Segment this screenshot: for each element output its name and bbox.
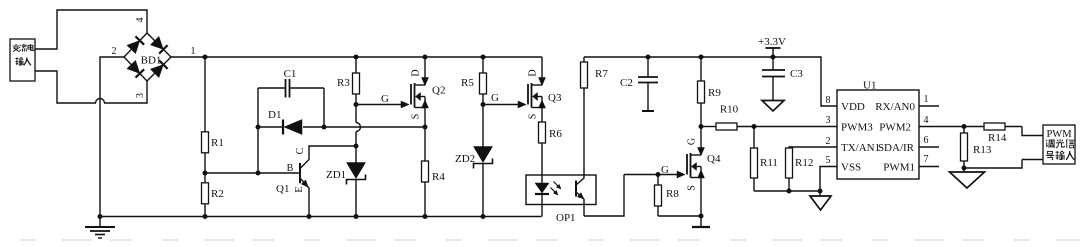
ground symbol (triangle) below R13 [963, 168, 965, 172]
optocoupler OP1 light arrows [554, 182, 561, 189]
svg-text:RX/AN0: RX/AN0 [875, 101, 915, 113]
bridge diode (pin3 to pin1) [150, 65, 163, 78]
AC input box (交流电输入) [10, 39, 35, 81]
node dot Q1 collector / ZD1 top [354, 144, 359, 149]
svg-text:ZD1: ZD1 [326, 169, 346, 181]
transistor Q1 emitter lead with arrow [300, 178, 309, 217]
svg-text:G: G [687, 138, 698, 145]
U1 pin 6 stub [919, 146, 939, 148]
svg-text:8: 8 [826, 95, 831, 106]
resistor R13 [963, 127, 965, 134]
svg-text:C1: C1 [284, 68, 297, 80]
svg-text:Q4: Q4 [707, 153, 721, 165]
svg-text:2: 2 [826, 136, 831, 147]
svg-text:S: S [687, 185, 698, 191]
diode D1 (cathode left) [282, 120, 284, 135]
svg-text:R2: R2 [211, 188, 224, 200]
wire low-voltage rail (R7 to U1 pin 8) [584, 57, 837, 106]
node dot pin5 ground node [818, 189, 823, 194]
bridge diode (pin2 to pin4) [127, 41, 140, 54]
AC input box text 交流电 [13, 44, 20, 52]
svg-text:D: D [411, 69, 422, 76]
node dot rail at R3 [354, 55, 359, 60]
node dot Q4 source / R8 / ground [699, 214, 704, 219]
wire C1 right lead down to node B [323, 88, 325, 127]
svg-text:R11: R11 [760, 157, 778, 169]
U1 pin 1 stub [919, 105, 939, 107]
resistor R7 [583, 57, 585, 62]
node dot Q1 emitter on ground rail [307, 214, 312, 219]
PWM box text 调光信 [1046, 140, 1054, 148]
zener diode ZD2 [482, 105, 484, 147]
node dot R2 bottom on ground rail [203, 214, 208, 219]
node dot bottom rail at ground [98, 214, 103, 219]
wire R9 node to R10 [701, 126, 716, 128]
node dot R8 top on gate net [656, 172, 661, 177]
PWM box text 号输入 [1046, 151, 1054, 160]
svg-text:R1: R1 [211, 137, 224, 149]
ground symbol (triangle) below C3 [762, 101, 784, 112]
svg-text:G: G [381, 93, 389, 105]
ground symbol (earth, multi-bar) [99, 217, 101, 228]
resistor R12 [786, 148, 793, 178]
svg-text:TX/AN1: TX/AN1 [841, 142, 880, 154]
svg-text:R5: R5 [461, 77, 474, 89]
optocoupler OP1 box [526, 175, 596, 205]
wire AC bottom line to bridge pin 3 (with hop over vertical) [35, 71, 96, 103]
resistor R8 [657, 175, 659, 186]
resistor R9 [700, 57, 702, 81]
svg-text:3: 3 [135, 93, 146, 98]
svg-text:2: 2 [112, 46, 117, 57]
ground symbol (triangle) below R11/R12 [819, 191, 821, 196]
wire bridge pin 2 to ground rail [100, 57, 124, 217]
U1 pin 4 wire [919, 126, 964, 128]
svg-text:3: 3 [826, 115, 831, 126]
svg-text:R6: R6 [549, 128, 562, 140]
svg-text:R8: R8 [666, 188, 679, 200]
resistor R5 [482, 57, 484, 73]
wire OP1 emitter to Q4 gate net [584, 175, 624, 217]
capacitor C3 [772, 57, 774, 70]
node dot ZD1 bottom on ground rail [354, 214, 359, 219]
optocoupler OP1 phototransistor [575, 181, 577, 197]
svg-text:PWM2: PWM2 [879, 122, 911, 134]
svg-text:R7: R7 [595, 68, 608, 80]
node dot R4 bottom on ground rail [423, 214, 428, 219]
transistor Q1 collector lead [300, 146, 356, 169]
wire Q4 gate net [624, 174, 658, 176]
svg-text:R9: R9 [708, 87, 721, 99]
svg-text:VSS: VSS [841, 162, 861, 174]
svg-text:Q3: Q3 [548, 92, 562, 104]
node dot R9 bottom / Q4 drain / R10 [699, 124, 704, 129]
wire R11/R12 bottoms to pin5 ground [754, 190, 820, 192]
svg-text:4: 4 [924, 115, 929, 126]
capacitor C2 [647, 57, 649, 77]
svg-text:C: C [295, 147, 306, 154]
node dot node A on D1 wire [256, 125, 261, 130]
svg-text:G: G [491, 92, 499, 104]
node dot rail at C2 [646, 55, 651, 60]
svg-text:OP1: OP1 [556, 212, 576, 224]
node dot rail at C3 [771, 55, 776, 60]
wire R14 to PWM box upper stub [1022, 127, 1043, 136]
svg-text:PWM: PWM [1046, 129, 1072, 140]
IC U1 box [837, 90, 919, 179]
svg-text:C2: C2 [620, 77, 633, 89]
PWM dimming signal input box [1043, 125, 1075, 164]
svg-text:PWM1: PWM1 [883, 162, 915, 174]
svg-text:ZD2: ZD2 [455, 153, 475, 165]
wire R8 bottom to Q4 source [658, 215, 701, 217]
node dot node A on base net [256, 171, 261, 176]
svg-text:Q1: Q1 [276, 183, 289, 195]
svg-text:1: 1 [191, 46, 196, 57]
wire main HV rail (bridge pin1 to Q3 drain) [171, 56, 542, 58]
mosfet Q3 [483, 104, 519, 106]
wire bottom ground rail [100, 216, 542, 218]
svg-text:E: E [294, 186, 305, 192]
ground symbol (bar) at Q4 source [700, 216, 702, 227]
node dot rail at R5 [481, 55, 486, 60]
svg-text:Q2: Q2 [432, 85, 445, 97]
wire R10 node to U1 pin 3 [754, 126, 837, 128]
svg-text:R4: R4 [432, 171, 445, 183]
wire U1 pin 2 to R12 [789, 147, 837, 148]
svg-text:R10: R10 [720, 104, 739, 116]
optocoupler OP1 LED [541, 175, 543, 183]
wire D1 net (node A to Q2 source column) [258, 126, 283, 128]
wire R13 bottom to PWM box lower stub [964, 160, 1043, 169]
node dot R12 bottom [787, 189, 792, 194]
svg-text:6: 6 [924, 135, 929, 146]
U1 pin 7 stub [919, 166, 939, 168]
node dot R3 bottom / Q2 gate net [354, 102, 359, 107]
svg-text:R12: R12 [795, 157, 813, 169]
wire R3 node down with hop over D1 net [355, 105, 357, 123]
node dot R13 bottom [962, 166, 967, 171]
svg-text:R14: R14 [988, 132, 1007, 144]
wire U1 pin 5 to ground [820, 167, 837, 192]
bridge diode (pin2 to pin3) [127, 60, 140, 73]
wire base net (R1/R2 junction to Q1 base) [205, 172, 300, 174]
svg-text:D1: D1 [268, 109, 281, 121]
node dot rail at R1 [203, 55, 208, 60]
bridge diode (pin4 to pin1) [150, 36, 163, 49]
svg-text:+3.3V: +3.3V [758, 36, 786, 48]
svg-text:D: D [528, 69, 539, 76]
AC input box text 输入 [15, 58, 23, 66]
svg-text:VDD: VDD [841, 101, 865, 113]
node dot R5 bottom / Q3 gate net [481, 102, 486, 107]
svg-text:5: 5 [826, 155, 831, 166]
node dot ZD2 bottom on ground rail [481, 214, 486, 219]
mosfet Q4 [658, 174, 678, 176]
node dot R1/R2 junction [203, 171, 208, 176]
node dot R10 right / R11 top [752, 124, 757, 129]
zener diode ZD1 [355, 146, 357, 163]
resistor R1 [204, 57, 206, 132]
resistor R2 [204, 173, 206, 183]
bridge rectifier BD1 diamond outline [124, 33, 171, 81]
svg-text:C3: C3 [790, 68, 803, 80]
svg-text:B: B [287, 163, 294, 174]
resistor R6 [541, 121, 543, 123]
svg-text:R3: R3 [337, 77, 350, 89]
ground stub bar below C2 [642, 110, 654, 112]
node dot pin4 net at R13 [962, 124, 967, 129]
transistor Q1 base bar [299, 163, 301, 183]
svg-text:7: 7 [924, 154, 929, 165]
faint scan artifact line at bottom [20, 239, 1080, 241]
svg-text:4: 4 [135, 18, 146, 23]
capacitor C1 [258, 87, 286, 89]
node dot rail at Q2 drain [423, 55, 428, 60]
resistor R3 [355, 57, 357, 73]
svg-text:S: S [411, 114, 422, 120]
resistor R4 [424, 127, 426, 161]
wire AC top line to bridge pin 4 [35, 10, 147, 49]
svg-text:S: S [528, 114, 539, 120]
svg-text:SDA/IR: SDA/IR [878, 142, 915, 154]
resistor R14 (horizontal) [964, 126, 984, 128]
resistor R11 [753, 127, 755, 149]
node dot node B [322, 125, 327, 130]
mosfet Q2 [356, 104, 402, 106]
node dot rail at R9 [699, 55, 704, 60]
svg-text:PWM3: PWM3 [841, 122, 873, 134]
svg-text:R13: R13 [973, 144, 992, 156]
svg-text:U1: U1 [863, 80, 876, 92]
resistor R10 [716, 123, 737, 130]
svg-text:1: 1 [924, 94, 929, 105]
node dot Q2 source / D1 net / R4 [423, 125, 428, 130]
svg-text:BD1: BD1 [141, 55, 162, 67]
wire node A vertical (C1 left lead down to base net) [257, 88, 259, 173]
power symbol +3.3V [766, 47, 781, 49]
